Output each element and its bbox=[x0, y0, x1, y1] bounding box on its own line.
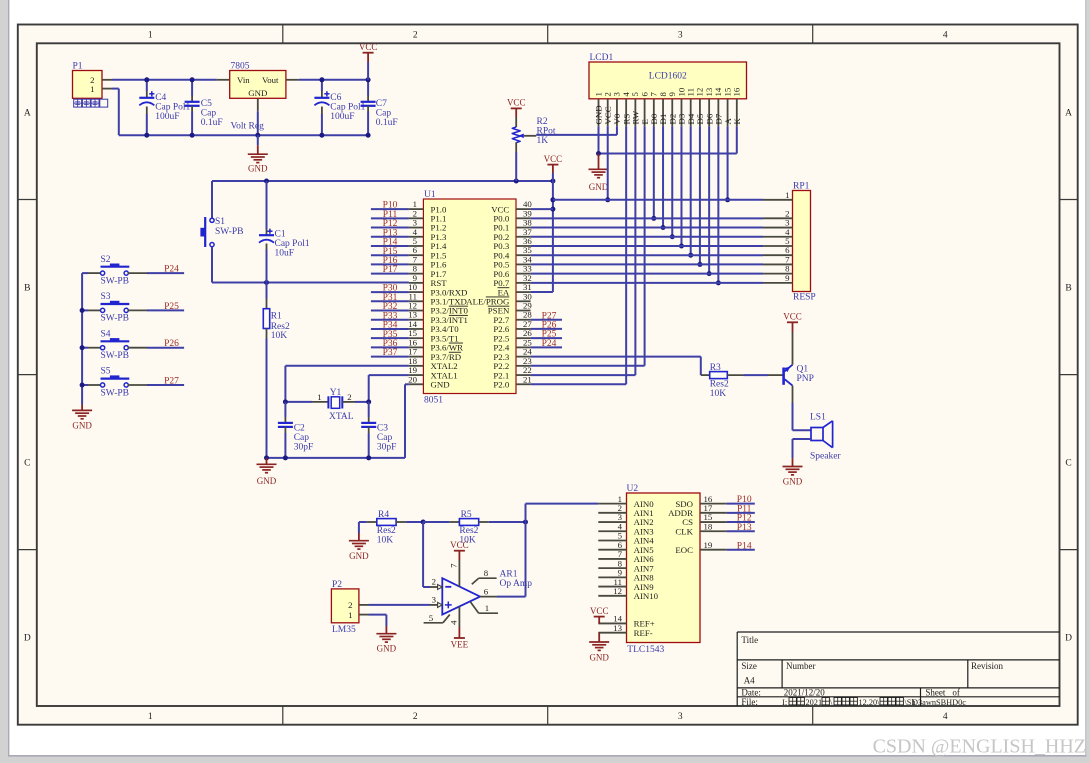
svg-text:30pF: 30pF bbox=[294, 442, 314, 452]
label dianyuanjiekou (power port) bbox=[74, 99, 108, 107]
svg-text:Title: Title bbox=[741, 635, 758, 645]
svg-text:SW-PB: SW-PB bbox=[101, 351, 130, 361]
wires U1 P3.0-P3.7 bbox=[371, 292, 409, 357]
wire LCD D4 to P0.4 bbox=[690, 126, 692, 255]
junction D6 bbox=[707, 271, 712, 276]
svg-text:3: 3 bbox=[678, 712, 683, 722]
svg-text:B: B bbox=[24, 284, 30, 294]
wire P2 pin2 to opamp bbox=[369, 604, 431, 606]
wire LCD V0 to potentiometer bbox=[536, 126, 617, 135]
wire R4 to ground bbox=[358, 522, 360, 533]
svg-text:20: 20 bbox=[408, 374, 417, 384]
junction C6 top bbox=[319, 77, 324, 82]
svg-text:D: D bbox=[24, 634, 31, 644]
svg-text:R4: R4 bbox=[378, 510, 389, 520]
wire VCC rail to RP1 pin1 bbox=[553, 199, 763, 201]
wire ADDR net bbox=[727, 512, 755, 514]
svg-text:P2.0: P2.0 bbox=[493, 379, 509, 389]
crystal Y1 bbox=[285, 388, 368, 422]
junction D0 bbox=[651, 216, 656, 221]
power VCC above Q1 bbox=[783, 312, 802, 333]
mcu U1 pins bbox=[408, 199, 532, 389]
svg-text:12: 12 bbox=[613, 586, 622, 596]
svg-text:LCD1: LCD1 bbox=[590, 53, 614, 63]
svg-text:A: A bbox=[24, 109, 31, 119]
svg-text:1K: 1K bbox=[537, 136, 549, 146]
wire LCD A pin15 to rail bbox=[727, 126, 729, 200]
capacitor C2 bbox=[278, 402, 313, 458]
switch S2 bbox=[82, 255, 147, 287]
svg-text:10K: 10K bbox=[271, 331, 288, 341]
net label P27 bbox=[164, 376, 179, 386]
svg-text:RP1: RP1 bbox=[793, 182, 810, 192]
svg-text:Y1: Y1 bbox=[330, 388, 342, 398]
svg-text:GND: GND bbox=[257, 476, 277, 486]
ground GND REF- bbox=[589, 633, 609, 663]
wire S3 to net label bbox=[147, 309, 184, 311]
svg-text:D3awnSBHD0c: D3awnSBHD0c bbox=[912, 698, 966, 707]
wire RST row bbox=[212, 282, 409, 284]
svg-text:2: 2 bbox=[413, 712, 418, 722]
zone column ticks top bbox=[283, 25, 813, 44]
connector P1 bbox=[73, 62, 113, 99]
svg-text:100uF: 100uF bbox=[330, 112, 354, 122]
zone row letters right bbox=[1065, 109, 1072, 644]
svg-text:CSDN @ENGLISH_HHZ: CSDN @ENGLISH_HHZ bbox=[873, 736, 1086, 758]
junction C7 bottom bbox=[366, 133, 371, 138]
capacitor C1 bbox=[259, 181, 310, 283]
svg-text:4: 4 bbox=[943, 31, 948, 41]
potentiometer R2 bbox=[512, 117, 556, 152]
power VCC top bbox=[359, 42, 378, 80]
svg-text:0.1uF: 0.1uF bbox=[376, 118, 398, 128]
mcu U1 body bbox=[423, 190, 516, 405]
junction D5 bbox=[697, 262, 702, 267]
junction VCC pin40 bbox=[550, 207, 555, 212]
svg-text:8051: 8051 bbox=[424, 395, 443, 405]
junction Y1 left bbox=[283, 399, 288, 404]
svg-text:GND: GND bbox=[72, 420, 92, 430]
net label P14 bbox=[737, 541, 752, 551]
junction S4 common bbox=[80, 345, 85, 350]
junction D7 bbox=[716, 280, 721, 285]
svg-text:P27: P27 bbox=[164, 376, 179, 386]
ground GND P2 bbox=[376, 626, 396, 654]
svg-text:S4: S4 bbox=[101, 329, 111, 339]
wires U1 P1.0-P1.7 bbox=[371, 209, 409, 274]
wire CS net bbox=[727, 521, 755, 523]
svg-text:Vout: Vout bbox=[262, 75, 279, 85]
junction LCD gnd bbox=[596, 151, 601, 156]
svg-text:16: 16 bbox=[732, 87, 742, 96]
net label P26 bbox=[164, 339, 179, 349]
svg-text:2: 2 bbox=[413, 31, 418, 41]
wire LCD VCC pin2 down to rail bbox=[607, 126, 609, 200]
svg-text:TLC1543: TLC1543 bbox=[627, 645, 664, 655]
wire P2.3 to R3 bbox=[531, 357, 710, 376]
switch S1 bbox=[200, 217, 243, 247]
svg-text:P1: P1 bbox=[73, 62, 83, 72]
wire 7805 GND down to rail bbox=[257, 111, 259, 135]
svg-text:D: D bbox=[1065, 634, 1072, 644]
junction R5 output node bbox=[523, 520, 528, 525]
ground GND crystal rail bbox=[257, 458, 277, 486]
junction C4 bottom bbox=[144, 133, 149, 138]
wire speaker to ground bbox=[793, 439, 812, 458]
switch S3 bbox=[82, 292, 147, 324]
net labels P10-P17 bbox=[383, 201, 398, 276]
zone column ticks bottom bbox=[283, 706, 813, 725]
svg-text:RESP: RESP bbox=[793, 292, 816, 302]
svg-text:4: 4 bbox=[943, 712, 948, 722]
wire VCC rail y181 bbox=[212, 180, 553, 182]
svg-text:10K: 10K bbox=[710, 389, 727, 399]
wire XTAL2 route bbox=[285, 366, 409, 402]
svg-text:2: 2 bbox=[432, 577, 436, 587]
svg-text:9: 9 bbox=[785, 273, 790, 283]
wire P1 pin2 to 7805 Vin bbox=[112, 79, 217, 81]
wire LCD D1 to P0.1 bbox=[662, 126, 664, 227]
junction D3 bbox=[679, 243, 684, 248]
speaker LS1 bbox=[810, 412, 841, 461]
junction D4 bbox=[688, 253, 693, 258]
svg-text:LS1: LS1 bbox=[810, 412, 826, 422]
adc U2 pins bbox=[598, 494, 726, 638]
zone column numbers bottom bbox=[148, 712, 948, 722]
svg-text:4: 4 bbox=[449, 620, 459, 625]
capacitor C4 bbox=[139, 80, 190, 135]
net label P27 stub bbox=[531, 311, 562, 321]
ground GND below LCD bbox=[589, 154, 609, 192]
svg-text:13: 13 bbox=[613, 623, 622, 633]
adc U2 body bbox=[627, 484, 701, 655]
svg-text:P2: P2 bbox=[332, 580, 342, 590]
junction rail C1 bbox=[264, 179, 269, 184]
svg-text:A: A bbox=[1065, 109, 1072, 119]
svg-text:1: 1 bbox=[148, 712, 153, 722]
svg-text:0.1uF: 0.1uF bbox=[201, 118, 223, 128]
wire R3 to Q1 base bbox=[744, 374, 769, 376]
svg-text:GND: GND bbox=[248, 88, 267, 98]
svg-text:VCC: VCC bbox=[590, 606, 609, 616]
svg-text:of: of bbox=[952, 688, 960, 698]
transistor Q1 bbox=[768, 332, 814, 403]
svg-text:VCC: VCC bbox=[359, 42, 378, 52]
wire switch common vertical bbox=[81, 273, 83, 404]
junction VCC rail2 bbox=[550, 197, 555, 202]
label Volt Reg bbox=[231, 122, 265, 132]
zone column numbers top bbox=[148, 31, 948, 41]
junction rail R2 bbox=[514, 179, 519, 184]
svg-text:Number: Number bbox=[786, 661, 816, 671]
wire S4 to net label bbox=[147, 347, 184, 349]
svg-text:A4: A4 bbox=[744, 676, 755, 686]
wire crystal ground rail bbox=[267, 457, 406, 459]
svg-text:2: 2 bbox=[347, 392, 351, 402]
svg-text:P14: P14 bbox=[737, 541, 752, 551]
svg-text:SW-PB: SW-PB bbox=[101, 314, 130, 324]
title block frame bbox=[737, 632, 1059, 706]
wire pot R2 to rail bbox=[515, 152, 517, 181]
wire LCD D3 to P0.3 bbox=[680, 126, 682, 246]
svg-text:5: 5 bbox=[429, 613, 434, 623]
svg-text:2021/12/20: 2021/12/20 bbox=[784, 688, 826, 698]
svg-text:P13: P13 bbox=[737, 523, 752, 533]
wire opamp output bbox=[497, 596, 526, 598]
svg-text:P24: P24 bbox=[542, 339, 557, 349]
net label P11 bbox=[737, 504, 752, 514]
resistor R1 bbox=[263, 283, 290, 458]
junction S3 common bbox=[80, 308, 85, 313]
ground GND below switches bbox=[72, 405, 92, 431]
wire rail up to U1 GND pin bbox=[405, 384, 409, 458]
junction C6 bottom bbox=[319, 133, 324, 138]
junction rail VCC column bbox=[550, 179, 555, 184]
net label P10 bbox=[737, 495, 752, 505]
wire feedback to AIN0 bbox=[526, 504, 599, 597]
power VCC mcu bbox=[544, 154, 563, 173]
zone row ticks right bbox=[1060, 200, 1078, 550]
svg-text:R5: R5 bbox=[461, 510, 472, 520]
power VEE opamp bbox=[451, 627, 469, 650]
svg-text:Op Amp: Op Amp bbox=[500, 579, 533, 589]
title block drawn by overlap bbox=[912, 698, 966, 707]
svg-text:GND: GND bbox=[377, 644, 397, 654]
capacitor C3 bbox=[361, 402, 396, 458]
svg-text:Volt Reg: Volt Reg bbox=[231, 122, 265, 132]
svg-text:P25: P25 bbox=[164, 302, 179, 312]
junction rail C3 bbox=[366, 455, 371, 460]
wire XTAL1 route bbox=[369, 375, 409, 402]
svg-text:C: C bbox=[1065, 459, 1071, 469]
junction S5 common bbox=[80, 383, 85, 388]
svg-text:Vin: Vin bbox=[237, 75, 250, 85]
wire VCC column down to EA bbox=[531, 173, 553, 292]
resistor pack RP1 body bbox=[793, 182, 816, 303]
wire EOC net bbox=[727, 549, 755, 551]
svg-text:7805: 7805 bbox=[231, 62, 250, 72]
switch S5 bbox=[82, 367, 147, 399]
ground GND R4 bbox=[349, 533, 369, 561]
svg-text:Speaker: Speaker bbox=[810, 451, 841, 461]
svg-text:S5: S5 bbox=[101, 367, 111, 377]
wires P0 bus to RP1 bbox=[531, 218, 763, 283]
wire U1 VCC pin40 bbox=[531, 208, 553, 210]
junction rail R1 bbox=[264, 455, 269, 460]
svg-text:File:: File: bbox=[741, 697, 758, 707]
power VCC above pot R2 bbox=[507, 98, 526, 117]
svg-text:1: 1 bbox=[485, 603, 489, 613]
svg-text:GND: GND bbox=[349, 551, 369, 561]
svg-text:1: 1 bbox=[785, 190, 789, 200]
svg-text:CLK: CLK bbox=[675, 526, 693, 536]
capacitor C7 bbox=[361, 80, 398, 135]
svg-text:SW-PB: SW-PB bbox=[215, 227, 244, 237]
zone row letters left bbox=[24, 109, 31, 644]
resistor R3 bbox=[710, 363, 744, 399]
svg-text:VCC: VCC bbox=[450, 540, 469, 550]
junction 7805 gnd rail bbox=[255, 133, 260, 138]
wire 7805 Vout to VCC corner bbox=[299, 79, 368, 81]
switch S4 bbox=[82, 329, 147, 361]
svg-text:30pF: 30pF bbox=[377, 442, 397, 452]
svg-text:1: 1 bbox=[317, 392, 321, 402]
svg-text:U2: U2 bbox=[627, 484, 639, 494]
sensor P2 bbox=[331, 580, 368, 635]
wire LCD RS to P2.0 bbox=[531, 126, 627, 384]
svg-text:GND: GND bbox=[248, 164, 268, 174]
wire LCD D6 to P0.6 bbox=[708, 126, 710, 273]
svg-text:S1: S1 bbox=[215, 217, 225, 227]
junction C7 top bbox=[366, 77, 371, 82]
net label P24 stub bbox=[531, 339, 562, 349]
net labels P30-P37 bbox=[383, 284, 398, 359]
capacitor C5 bbox=[185, 80, 223, 135]
svg-text:I:: I: bbox=[782, 698, 787, 707]
lcd LCD1 pins bbox=[593, 87, 742, 126]
power VCC opamp bbox=[450, 540, 469, 560]
svg-text:LM35: LM35 bbox=[332, 625, 356, 635]
junction C5 bottom bbox=[190, 133, 195, 138]
svg-text:Size: Size bbox=[741, 661, 757, 671]
junction C4 top bbox=[144, 77, 149, 82]
lcd LCD1 body bbox=[589, 53, 747, 99]
resistor R5 bbox=[423, 510, 525, 546]
net label P24 bbox=[164, 265, 179, 275]
junction C1 bottom RST bbox=[264, 280, 269, 285]
svg-text:U1: U1 bbox=[424, 190, 436, 200]
wire S2 to net label bbox=[147, 272, 184, 274]
net label P26 stub bbox=[531, 321, 562, 331]
svg-text:SW-PB: SW-PB bbox=[101, 388, 130, 398]
wire CLK net bbox=[727, 530, 755, 532]
svg-text:VCC: VCC bbox=[507, 98, 526, 108]
svg-text:S3: S3 bbox=[101, 292, 111, 302]
svg-text:3: 3 bbox=[432, 595, 437, 605]
capacitor C6 bbox=[314, 80, 365, 135]
net label P25 stub bbox=[531, 330, 562, 340]
wire LCD E to P2.2 bbox=[531, 126, 645, 365]
junction LCD VCC rail bbox=[605, 197, 610, 202]
regulator 7805 bbox=[217, 62, 299, 112]
svg-text:B: B bbox=[1065, 284, 1071, 294]
svg-text:1: 1 bbox=[348, 610, 352, 620]
svg-text:LCD1602: LCD1602 bbox=[649, 72, 687, 82]
svg-text:R3: R3 bbox=[710, 363, 721, 373]
svg-text:21: 21 bbox=[523, 374, 532, 384]
junction R4 R5 node bbox=[421, 520, 426, 525]
svg-text:7: 7 bbox=[449, 563, 459, 568]
ground GND speaker bbox=[783, 458, 803, 486]
svg-text:EOC: EOC bbox=[675, 545, 693, 555]
wire LCD K pin16 to gnd bbox=[599, 126, 737, 153]
svg-text:8: 8 bbox=[484, 568, 489, 578]
svg-text:Q1: Q1 bbox=[797, 364, 809, 374]
title block texts bbox=[741, 635, 1003, 707]
watermark CSDN bbox=[873, 736, 1086, 758]
svg-text:AIN10: AIN10 bbox=[634, 591, 659, 601]
svg-text:PNP: PNP bbox=[797, 374, 814, 384]
svg-text:GND: GND bbox=[589, 182, 609, 192]
wire rail down to S1 bbox=[211, 181, 213, 218]
svg-text:P26: P26 bbox=[164, 339, 179, 349]
svg-text:GND: GND bbox=[431, 379, 450, 389]
svg-text:K: K bbox=[732, 118, 742, 125]
svg-text:18: 18 bbox=[704, 521, 713, 531]
net label P13 bbox=[737, 523, 752, 533]
junction D1 bbox=[661, 225, 666, 230]
svg-text:100uF: 100uF bbox=[155, 112, 179, 122]
svg-text:P24: P24 bbox=[164, 265, 179, 275]
svg-text:VCC: VCC bbox=[783, 312, 802, 322]
svg-text:2: 2 bbox=[348, 600, 352, 610]
junction D2 bbox=[670, 234, 675, 239]
svg-text:Sheet: Sheet bbox=[925, 688, 945, 698]
wire SDO net bbox=[727, 503, 755, 505]
svg-text:XTAL: XTAL bbox=[329, 412, 354, 422]
wire LCD D7 to P0.7 bbox=[717, 126, 719, 283]
svg-text:REF-: REF- bbox=[634, 628, 653, 638]
svg-text:VEE: VEE bbox=[451, 640, 469, 650]
wire P1 pin1 down to ground rail bbox=[112, 89, 119, 136]
op-amp AR1 bbox=[424, 560, 533, 627]
svg-text:1: 1 bbox=[148, 31, 153, 41]
svg-text:Revision: Revision bbox=[971, 661, 1004, 671]
svg-text:1: 1 bbox=[90, 84, 94, 94]
power VCC REF+ bbox=[590, 606, 609, 624]
wire LCD D2 to P0.2 bbox=[671, 126, 673, 236]
junction C5 top bbox=[190, 77, 195, 82]
svg-text:VCC: VCC bbox=[544, 154, 563, 164]
svg-text:AR1: AR1 bbox=[500, 570, 518, 580]
wire LCD D5 to P0.5 bbox=[699, 126, 701, 264]
junction LCD A rail bbox=[725, 197, 730, 202]
svg-text:GND: GND bbox=[783, 477, 803, 487]
resistor R4 bbox=[359, 510, 423, 546]
svg-text:10K: 10K bbox=[377, 536, 394, 546]
resistor pack RP1 pins bbox=[763, 190, 793, 283]
wire inverting input bbox=[423, 522, 430, 587]
net label P12 bbox=[737, 514, 752, 524]
svg-text:12.20\: 12.20\ bbox=[859, 698, 881, 707]
wire S1 down to RST wire bbox=[211, 247, 213, 283]
svg-text:S2: S2 bbox=[101, 255, 111, 265]
junction Y1 right bbox=[366, 399, 371, 404]
net label P25 bbox=[164, 302, 179, 312]
wire S5 to net label bbox=[147, 384, 184, 386]
svg-text:2021: 2021 bbox=[806, 698, 823, 707]
svg-text:6: 6 bbox=[484, 586, 489, 596]
wire LCD RW to P2.1 bbox=[531, 126, 636, 375]
wire LCD GND pin1 down bbox=[598, 126, 600, 153]
svg-text:R1: R1 bbox=[271, 311, 282, 321]
svg-text:10uF: 10uF bbox=[275, 248, 295, 258]
ground rail bottom bbox=[119, 134, 368, 136]
title block file path bbox=[782, 698, 916, 707]
svg-text:GND: GND bbox=[589, 653, 609, 663]
svg-text:SW-PB: SW-PB bbox=[101, 276, 130, 286]
junction rail C2 bbox=[283, 455, 288, 460]
wire P2 pin1 to ground bbox=[369, 615, 387, 626]
zone row ticks left bbox=[18, 200, 37, 550]
svg-text:19: 19 bbox=[704, 540, 713, 550]
wire Q1 collector down bbox=[793, 403, 812, 430]
wire LCD D0 to P0.0 bbox=[653, 126, 655, 218]
ground GND below 7805 bbox=[248, 135, 268, 174]
svg-text:C: C bbox=[24, 459, 30, 469]
svg-text:3: 3 bbox=[678, 31, 683, 41]
